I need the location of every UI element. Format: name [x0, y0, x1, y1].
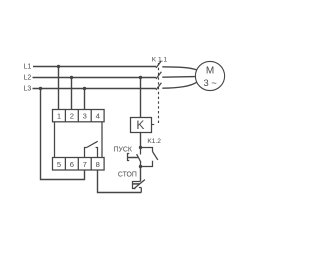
wire L1 to terminal 1: [58, 67, 60, 110]
wire contact pole 2 to motor: [162, 76, 195, 79]
node L3 tap left branch: [39, 87, 42, 90]
svg-text:5: 5: [57, 160, 61, 169]
svg-text:L3: L3: [24, 86, 32, 93]
coil K box: [131, 118, 152, 133]
node parallel branch top: [139, 146, 142, 149]
internal relay contact leads: [85, 148, 98, 158]
svg-text:СТОП: СТОП: [118, 171, 137, 178]
svg-text:1: 1: [57, 112, 61, 121]
node parallel branch bottom: [139, 165, 142, 168]
relay terminal row bottom (5-8): [53, 158, 105, 171]
contact K1.2 NO: [141, 148, 158, 167]
coil mechanical link tick: [152, 124, 155, 126]
svg-text:L2: L2: [24, 75, 32, 82]
svg-text:K: K: [136, 118, 144, 132]
wire coil to start button: [140, 133, 142, 148]
svg-text:M: M: [206, 66, 214, 77]
phase line L2: [33, 77, 157, 79]
relay body sides: [55, 122, 103, 158]
node L2 tap: [70, 76, 73, 79]
wire contact pole 1 to motor: [162, 67, 197, 70]
motor M1 circle: [195, 61, 224, 90]
svg-text:4: 4: [96, 112, 100, 121]
pushbutton start NO: [128, 148, 142, 167]
node L3 tap terminal 3: [83, 87, 86, 90]
wire contact pole 3 to motor: [162, 82, 197, 88]
wire L2 to terminal 2: [71, 78, 73, 110]
svg-text:3: 3: [83, 112, 87, 121]
phase line L1: [33, 66, 156, 68]
svg-text:K1.2: K1.2: [147, 138, 161, 145]
svg-text:L1: L1: [24, 64, 32, 71]
node L2 tap coil branch: [139, 76, 142, 79]
node L1 tap: [57, 65, 60, 68]
svg-text:7: 7: [83, 160, 87, 169]
mechanical link dashed: [158, 63, 160, 125]
svg-text:2: 2: [70, 112, 74, 121]
svg-text:8: 8: [96, 160, 100, 169]
wire stop button to terminal 8: [98, 170, 142, 193]
wire L3 to terminal 7: [41, 89, 85, 180]
phase line L3: [33, 88, 157, 90]
wire to stop button: [140, 167, 142, 182]
svg-text:3 ~: 3 ~: [204, 77, 218, 88]
svg-text:6: 6: [70, 160, 74, 169]
internal relay contact blade: [87, 141, 98, 147]
relay terminal row top (1-4): [53, 110, 105, 122]
contact K1.1 pole 1 blade: [156, 61, 161, 68]
wire L3 to terminal 3: [84, 89, 86, 110]
pushbutton stop NC: [133, 180, 145, 193]
wire L2 to coil K: [140, 78, 142, 118]
svg-text:ПУСК: ПУСК: [114, 147, 132, 154]
contact K1.1 pole 2 blade: [156, 72, 161, 79]
contact K1.1 pole 3 blade: [156, 83, 161, 90]
